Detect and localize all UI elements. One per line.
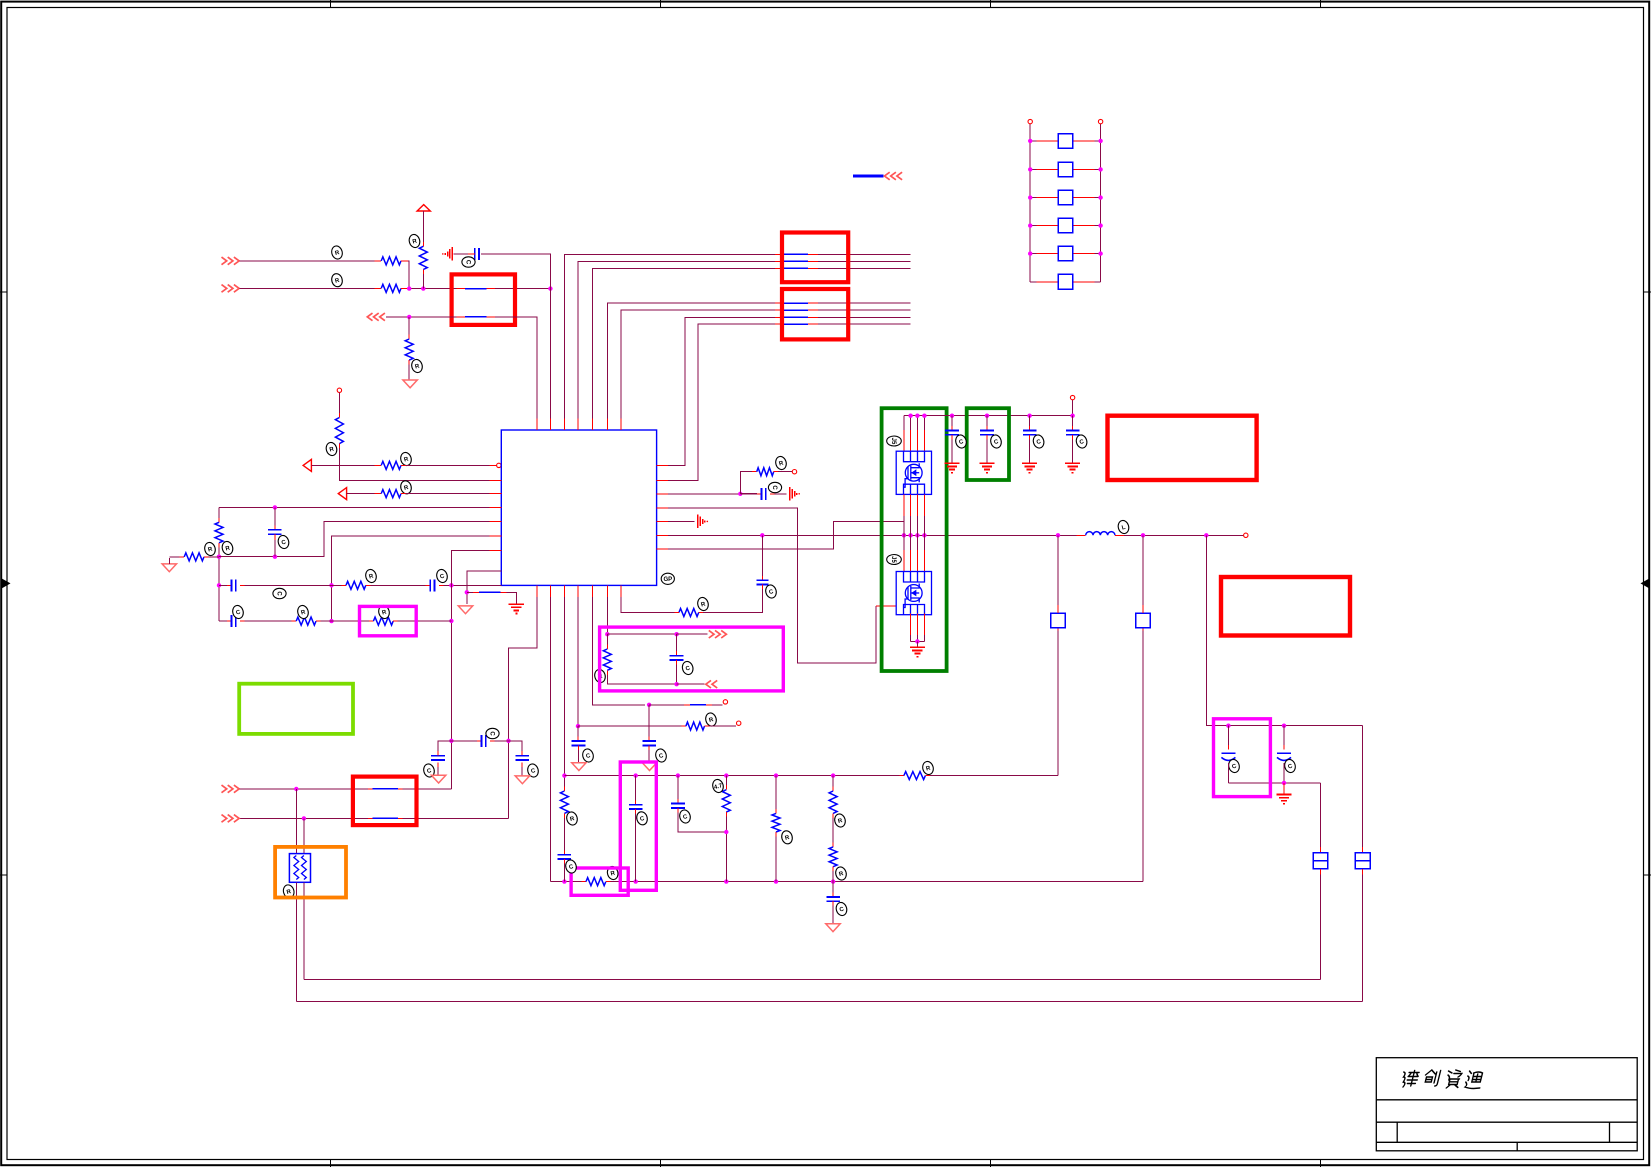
wire RF to IC inverted pin bbox=[401, 464, 406, 466]
rail riser to circle bbox=[1072, 400, 1074, 416]
highlight red box R3 bbox=[782, 289, 848, 339]
mosfet mid bundle verticals bbox=[904, 494, 925, 516]
IC right pin stubs bbox=[657, 465, 669, 549]
resistor RE vertical bbox=[338, 393, 340, 414]
wire port A to resistor bbox=[240, 260, 375, 262]
ac ground left bbox=[451, 247, 453, 261]
resistor RF bbox=[381, 461, 401, 469]
title block company logo text bbox=[1400, 1070, 1484, 1089]
wire jumper to vertical x550 bbox=[495, 288, 550, 290]
decoupling cap C1 with earth ground bbox=[950, 414, 954, 418]
decoupling cap C3 with earth ground bbox=[1027, 414, 1031, 418]
highlight magenta box C bbox=[571, 868, 628, 895]
wire RB to junction bus bbox=[401, 287, 408, 289]
ground triangle under jumper bbox=[458, 606, 472, 614]
jumper resistor ladder row 5 bbox=[1030, 253, 1036, 255]
wire RC to junction bbox=[422, 270, 424, 275]
IC top pin stubs bbox=[537, 419, 621, 430]
rail2 wire y881 bbox=[550, 881, 581, 883]
jumper to earth ground bbox=[467, 591, 473, 593]
resistor RO y621 bbox=[296, 617, 316, 625]
rail1 wire y775 bbox=[564, 775, 899, 777]
wire to IC top pin 1 via corner bbox=[495, 317, 537, 419]
ground triangle under cap x522 bbox=[515, 776, 529, 784]
wire bottom row y621 bbox=[219, 620, 227, 622]
earth ground under pcap2 bbox=[1283, 783, 1285, 794]
junction x451 y621 bbox=[449, 619, 453, 623]
IC left pin stubs bbox=[490, 480, 502, 571]
highlight magenta box A bbox=[600, 627, 784, 691]
rail end circle bbox=[1244, 533, 1248, 537]
IC right pin y493 net bbox=[668, 493, 739, 495]
blue net stub line bbox=[853, 175, 884, 178]
wire y726 resistor to nc circle bbox=[578, 725, 681, 727]
highlight red box R2 bbox=[782, 233, 848, 283]
highlight green box G1 bbox=[882, 408, 947, 671]
chain x635 cap bbox=[635, 776, 637, 801]
fuse F1 riser bbox=[1320, 783, 1322, 847]
ladder left rail wire bbox=[1029, 124, 1031, 282]
IC bottom pin x564 chain bbox=[563, 597, 565, 787]
resistor RL on y585 bbox=[346, 581, 366, 589]
highlight magenta box B tall bbox=[620, 762, 656, 890]
cap CM horizontal on y585 bbox=[429, 579, 431, 591]
chain x677 cap to y832 bbox=[677, 776, 679, 799]
net arrow <<< bbox=[885, 172, 903, 180]
resistor RD to ground bbox=[408, 317, 410, 335]
no-connect circle top of RE bbox=[337, 388, 341, 392]
highlight green box G2 bbox=[967, 408, 1009, 480]
chain x833 double resistor and cap bbox=[832, 776, 834, 787]
mosfet Q1 bbox=[896, 451, 931, 494]
IC bottom pin stubs bbox=[537, 585, 621, 597]
IC designator label GP bbox=[661, 573, 674, 584]
highlight red box R1 bbox=[452, 274, 515, 325]
svg-text:J5: J5 bbox=[890, 556, 896, 563]
mosfet top bundle verticals bbox=[903, 416, 905, 430]
port >>> D bbox=[222, 815, 240, 823]
highlight lime box bbox=[239, 684, 353, 734]
ladder right rail wire bbox=[1100, 124, 1102, 282]
resistor RP y621 in magenta box bbox=[373, 617, 393, 625]
junction x303 y818 bbox=[302, 816, 306, 820]
svg-text:C: C bbox=[275, 591, 281, 596]
jumper resistor ladder row 3 bbox=[1030, 197, 1036, 199]
wire IC right pin2 up east bbox=[668, 324, 775, 480]
net y740 row with caps bbox=[437, 767, 439, 775]
wire port C east bbox=[386, 316, 457, 318]
mosfet Q2 bbox=[896, 572, 931, 615]
rail1 junction dots bbox=[634, 773, 638, 777]
wire rail y507 to IC bbox=[219, 506, 490, 508]
riser x1058 from rail1 to rail y535 bbox=[1057, 631, 1059, 776]
wire port1 to resistor RF bbox=[311, 464, 374, 466]
inverted pin bubble bbox=[497, 463, 501, 467]
cap CQ horizontal bbox=[740, 493, 757, 495]
junction on x550 vertical bbox=[548, 286, 552, 290]
bundle top rail bbox=[904, 415, 1073, 417]
wire IC pin x592 up east bbox=[593, 268, 775, 418]
ladder terminal circle right bbox=[1098, 119, 1102, 123]
highlight red box R6 bbox=[353, 777, 417, 826]
jumper in red box row y288 bbox=[456, 288, 465, 290]
highlight orange box bbox=[275, 847, 346, 898]
svg-text:C: C bbox=[771, 485, 777, 490]
IC U1 body bbox=[501, 430, 656, 585]
IC bottom pin x578 chain bbox=[577, 597, 579, 726]
junction x296 y788 bbox=[294, 787, 298, 791]
IC bottom pin x592 chain bbox=[593, 597, 646, 705]
chain x726 resistor 4.7 bbox=[725, 776, 727, 786]
highlight red box R5 bbox=[1221, 577, 1350, 636]
cap CS from rail to y612 row bbox=[761, 535, 763, 576]
ladder terminal circle left bbox=[1028, 119, 1032, 123]
IC right pin y508 long route to mosfet gate bbox=[668, 508, 876, 663]
wire IC pin x607 up east bbox=[607, 303, 775, 419]
junction pcap2 bbox=[1282, 724, 1286, 728]
wire IC pin y550 corner down bbox=[451, 550, 489, 585]
port <<< C bbox=[367, 313, 385, 321]
wire y634 to port >>> bbox=[607, 633, 676, 635]
wire IC pin x564 up east through red box bbox=[564, 254, 774, 418]
svg-text:GP: GP bbox=[663, 577, 672, 583]
highlight red box R4 bbox=[1108, 416, 1257, 480]
junction x649 y704 bbox=[647, 703, 651, 707]
jumper resistor ladder row 1 bbox=[1030, 140, 1036, 142]
cap CW in box A bbox=[676, 634, 678, 651]
port >>> A bbox=[222, 257, 240, 265]
wire resistor RA to corner down bbox=[401, 260, 408, 262]
wire y684 to port << bbox=[677, 683, 705, 685]
pullup resistor RC bbox=[419, 246, 427, 269]
fuse F2 riser bbox=[1362, 726, 1364, 847]
IC bottom pin x550 to rail2 bbox=[549, 597, 551, 882]
jumper resistor ladder row 4 bbox=[1030, 225, 1036, 227]
junction x564 rail1 bbox=[562, 773, 566, 777]
highlight magenta box D bbox=[360, 606, 417, 635]
drop x1206 from rail y535 to cap row bbox=[1206, 535, 1362, 725]
polarized cap CP2 bbox=[1283, 726, 1285, 745]
svg-text:J5: J5 bbox=[890, 438, 896, 445]
junction y493 bbox=[738, 492, 742, 496]
title block outline bbox=[1376, 1058, 1637, 1151]
IC bottom pin x607 to magenta box A bbox=[606, 597, 608, 634]
chain x776 resistor bbox=[775, 776, 777, 809]
input port triangle 2 bbox=[338, 488, 346, 500]
resistor RT y612 bbox=[699, 612, 704, 614]
junction y592 bbox=[465, 590, 469, 594]
port << F bbox=[706, 680, 717, 688]
IC right pin y521 ac ground bbox=[668, 520, 694, 522]
jumper resistor ladder row 2 bbox=[1030, 168, 1036, 170]
mosfet bottom bundle verticals bbox=[911, 614, 925, 636]
svg-text:C: C bbox=[464, 260, 470, 265]
wire y585 row bbox=[219, 584, 227, 586]
svg-text:C: C bbox=[488, 731, 494, 736]
cap CJ vertical bbox=[274, 507, 276, 525]
junction y684 bbox=[674, 682, 678, 686]
earth ground right of triangle bbox=[509, 603, 524, 605]
resistor RB bbox=[381, 284, 401, 292]
border center arrow right bbox=[1641, 579, 1650, 589]
resistor RR to nc circle bbox=[740, 472, 752, 494]
cap CK horizontal bbox=[230, 579, 232, 591]
highlight magenta box E bbox=[1214, 719, 1271, 797]
inductor L1 bbox=[1086, 532, 1115, 536]
main rail y535 from IC to open circle bbox=[668, 534, 1076, 536]
long bottom wire y979 bbox=[304, 979, 1321, 981]
wire cap to ac ground bbox=[468, 253, 475, 255]
riser x1143 from rail2 to rail y535 bbox=[1142, 631, 1144, 882]
vertical x451 long bbox=[450, 585, 452, 789]
ground triangle under cap x438 bbox=[431, 775, 445, 783]
wire pcap bottoms to fuse riser bbox=[1228, 782, 1320, 784]
junction x219 y585 bbox=[217, 583, 221, 587]
long bottom wire y1001 bbox=[296, 1000, 1362, 1002]
wire IC pin x578 up east bbox=[578, 261, 775, 418]
ground triangle RD bbox=[403, 380, 417, 388]
wire y556 east to corner up to IC pin y521 bbox=[219, 522, 490, 557]
port >>> E bbox=[709, 630, 727, 638]
junction x451 y740 bbox=[449, 739, 453, 743]
jumper resistor ladder row 6 bbox=[1030, 281, 1036, 283]
input port triangle 1 bbox=[303, 459, 311, 471]
resistor RS on rail2 bbox=[586, 878, 606, 886]
wire port B east bbox=[240, 287, 375, 289]
cap under x649 bbox=[648, 705, 650, 737]
junction x607 y634 bbox=[605, 632, 609, 636]
cap under x578 bbox=[577, 726, 579, 737]
orange box resistor pack bbox=[295, 789, 297, 855]
junction x331 y621 bbox=[329, 619, 333, 623]
wire IC pin x550 up to cap row bbox=[481, 254, 550, 419]
vertical x219 with resistor RH bbox=[218, 507, 220, 517]
junction x451 y585 bbox=[449, 583, 453, 587]
IC pin y570 jumper ground net bbox=[467, 571, 502, 604]
rail2 junction dots bbox=[562, 879, 566, 883]
power arrow VCC1 bbox=[417, 205, 430, 211]
resistor RU on rail1 bbox=[904, 772, 925, 780]
junction cap tap y507 bbox=[273, 505, 277, 509]
wire y704 jumper to nc circle bbox=[649, 704, 684, 706]
wire RE down to pin row 2 bbox=[339, 448, 489, 480]
nc circle y471 bbox=[792, 470, 796, 474]
wire y612 west to IC bottom pin x621 bbox=[621, 597, 674, 613]
junction cap bottom y556 bbox=[273, 555, 277, 559]
decoupling cap C2 with earth ground bbox=[985, 414, 989, 418]
ac ground right y493 bbox=[789, 487, 791, 501]
ground resistor RI row bbox=[162, 564, 176, 572]
jumper in red box row y317 bbox=[456, 316, 465, 318]
wire IC pin x621 up east bbox=[621, 310, 775, 419]
border center arrow left bbox=[2, 579, 11, 589]
decoupling cap C4 with earth ground bbox=[1070, 414, 1074, 418]
ground triangle x833 bbox=[826, 924, 840, 932]
vertical x331 from IC pin y536 bbox=[332, 536, 490, 621]
junction x331 y585 bbox=[329, 583, 333, 587]
IC bottom pin x537 route west-down bbox=[509, 597, 538, 818]
wire IC right pin1 up east bbox=[668, 317, 775, 465]
junction x508 y740 bbox=[506, 739, 510, 743]
wire port2 to resistor RG bbox=[347, 493, 375, 495]
junction x726 y832 bbox=[724, 830, 728, 834]
rail junction dots bbox=[760, 533, 764, 537]
port >>> G bbox=[222, 785, 240, 793]
junction at pullup bbox=[421, 286, 425, 290]
wire y818 west through red box R6 bbox=[402, 817, 508, 819]
IC right pin y548 route to mosfet bundle bbox=[668, 521, 904, 549]
resistor RV in box A bbox=[606, 634, 608, 644]
cap CN horizontal y621 bbox=[230, 615, 232, 627]
junction port C bbox=[407, 315, 411, 319]
wire y585 east segment bbox=[332, 584, 342, 586]
wire RG to IC pin bbox=[401, 493, 406, 495]
resistor RA bbox=[381, 257, 401, 265]
cap C-top1 bbox=[474, 248, 476, 260]
polarized cap CP1 bbox=[1227, 726, 1229, 745]
port >>> B bbox=[222, 285, 240, 293]
earth ground under mosfets bbox=[910, 646, 925, 648]
wire y788 through red box R6 bbox=[240, 788, 369, 790]
junction x578 y726 bbox=[576, 724, 580, 728]
junction pcap1 bbox=[1226, 724, 1230, 728]
resistor RG bbox=[381, 490, 401, 498]
junction at RA corner bbox=[407, 286, 411, 290]
junction x219 y556 bbox=[217, 555, 221, 559]
